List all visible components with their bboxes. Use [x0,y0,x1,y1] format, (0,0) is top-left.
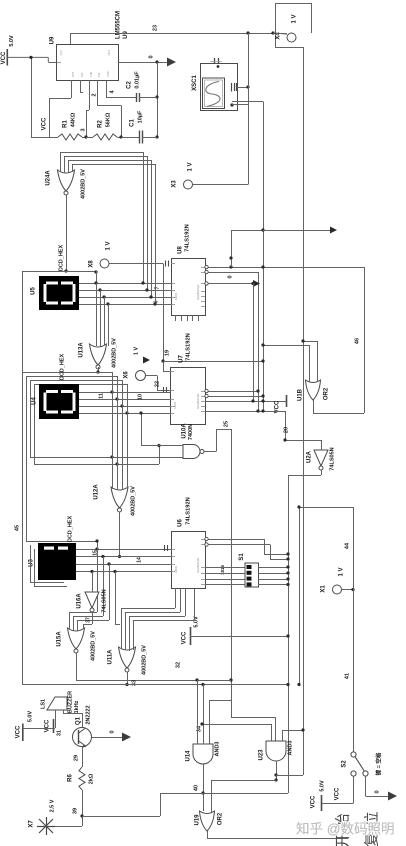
wire S2 right to ground [365,776,367,796]
svg-text:1kHz: 1kHz [74,700,80,713]
pin bubbles U8 carry/borrow [205,265,208,268]
svg-text:RST: RST [71,71,75,77]
svg-text:U24A: U24A [46,170,52,186]
svg-text:5.0V: 5.0V [9,35,15,47]
wire U13A output [98,367,100,372]
svg-text:U13A: U13A [79,342,85,358]
wire ones BCD row4 [76,571,171,573]
wire hundreds BCD row3 [79,297,171,299]
ground at Q1 [122,733,131,742]
svg-text:BUZZER: BUZZER [67,691,73,713]
wire U7 carry pins right [208,391,258,393]
wire VCC to R1 chain [31,57,33,137]
svg-text:1 V: 1 V [292,14,298,23]
wire S1 to preset trunk [258,567,288,569]
wire U15A output net 33 [76,653,78,680]
net arrow near X6 [143,357,150,364]
logic gate U15A 4002BD_5V NOR [68,628,85,649]
probe X1 [333,585,342,594]
svg-text:X8: X8 [89,260,95,268]
svg-text:U5: U5 [31,287,37,295]
svg-text:23: 23 [152,25,158,31]
wire Q1 emitter to ground [92,737,123,739]
svg-text:4002BD_5V: 4002BD_5V [80,169,86,199]
svg-text:3: 3 [80,128,86,131]
svg-text:2.5 V: 2.5 V [49,799,55,812]
svg-text:LM555CM: LM555CM [116,11,122,39]
svg-text:OUT: OUT [107,50,111,56]
wire U2A input [321,440,323,450]
capacitor C2 0.01uF [136,93,138,102]
svg-text:U4: U4 [32,397,38,405]
wire left trunk 45 [22,271,24,684]
svg-text:31: 31 [56,730,62,736]
wire net 44 [299,507,353,509]
capacitor C1 10uF [121,137,139,139]
logic gate U19 OR2 [200,811,215,831]
wire tens BCD row4 [79,413,170,415]
svg-text:1 V: 1 V [339,567,345,576]
svg-text:10µF: 10µF [137,110,143,123]
svg-text:AND3: AND3 [287,741,293,756]
wire U8 pin to trunk [208,272,258,274]
probe X4 frame [275,3,311,5]
wire U12A output down [119,512,121,557]
svg-text:U9: U9 [49,36,55,44]
svg-text:X6: X6 [124,371,130,379]
wire U19 output [207,831,209,838]
svg-text:44KΩ: 44KΩ [70,112,76,127]
svg-text:14: 14 [136,557,142,563]
svg-text:7400N: 7400N [188,424,194,440]
svg-text:DIS: DIS [80,72,84,77]
svg-text:74LS192N: 74LS192N [186,497,192,525]
wire U6 carry jogs [208,539,264,541]
wire buzzer to Q1 collector [63,710,65,713]
wire X3 to clock trunk [193,184,249,186]
svg-text:46: 46 [354,338,360,344]
wire trunk scope B down right side [263,102,265,412]
wire U1B inputs [309,345,311,382]
wire hundreds BCD row4 [79,304,171,306]
resistor R6 2kOhm [79,767,85,790]
svg-text:VCC: VCC [59,50,63,56]
wire loop bottoms / U10A feeds [30,457,183,459]
svg-text:29: 29 [73,755,79,761]
svg-text:VCC: VCC [335,787,341,800]
wire U24A inputs from U8 bus [60,152,62,172]
svg-text:OR2: OR2 [218,812,224,825]
svg-text:X7: X7 [29,820,35,828]
svg-text:ABCD: ABCD [173,402,177,409]
logic gate U13A 4002BD_5V NOR [90,344,107,365]
probe X3 [184,180,193,189]
svg-text:THR: THR [89,72,93,77]
svg-text:知乎 @数码照明: 知乎 @数码照明 [296,821,394,837]
wire loop verticals left of U4 [26,376,28,541]
wire U24A output down [66,195,68,271]
wire ones BCD row2 [76,556,171,558]
wire tens bus columns down to U12A [112,372,114,487]
svg-text:OR2: OR2 [324,387,330,400]
svg-text:74LS05N: 74LS05N [101,589,107,612]
svg-text:44: 44 [344,542,350,549]
svg-text:VCC: VCC [1,51,7,64]
node junction R1/R2 [84,135,87,138]
probe X6 [136,371,146,381]
svg-text:U16A: U16A [77,593,83,609]
svg-text:1 V: 1 V [133,347,139,356]
wire U16A input [92,572,94,593]
pin stub 555 CON [80,80,82,92]
wire U1B output net 46 [313,400,315,413]
svg-text:1 V: 1 V [188,162,194,171]
svg-text:ABCD: ABCD [174,566,178,573]
logic gate U24A 4002BD_5V NOR [58,170,75,191]
svg-text:74LS192N: 74LS192N [186,333,192,361]
svg-text:S2: S2 [342,760,348,768]
wire ones BCD row3 [76,564,171,566]
svg-text:U15A: U15A [57,631,63,647]
wire U10A inputs [141,413,143,446]
svg-text:22: 22 [154,381,160,387]
svg-text:VCC: VCC [311,795,317,808]
pin stub 555 TRI [97,80,99,106]
power VCC near U7 [286,395,288,407]
svg-text:5.0V: 5.0V [319,780,325,792]
wire hundreds BCD row2 [79,290,171,292]
wire U14 inputs [197,680,199,744]
svg-text:U2A: U2A [307,450,313,463]
wire S2 left to VCC [353,776,355,803]
wire scope drop from net 23 [248,33,250,185]
display U4 DCD_HEX [39,384,79,419]
svg-text:5.0V: 5.0V [27,711,33,723]
logic gate U2A 74LS05N [314,450,328,466]
wire loop around U3 lower-left [30,545,32,582]
svg-text:X3: X3 [172,180,178,188]
wire jogs to U15A inputs [69,612,97,614]
switch S1 DIP-4 [245,563,259,587]
logic gate U1B OR2 [306,380,321,400]
svg-text:ABCD: ABCD [174,293,178,300]
svg-text:QAQBQCQD: QAQBQCQD [196,558,200,573]
svg-text:U9: U9 [123,31,129,39]
svg-text:U3: U3 [29,559,35,567]
wire net U24A-out horizontal [22,271,96,273]
wire X6 to U7 pin 22 [146,375,158,377]
probe X8 [100,259,109,268]
IC U6 74LS192N [172,532,206,589]
svg-text:39: 39 [72,808,78,814]
IC U7 74LS192N [171,368,206,425]
svg-text:56KΩ: 56KΩ [105,112,111,127]
probe X7 2.5V lamp [39,819,53,833]
svg-text:41: 41 [344,673,350,679]
wire trunk U2A out down [288,475,290,793]
wire tens BCD row3 [79,406,170,408]
transistor Q1 2N2222 [73,728,92,747]
svg-text:U1B: U1B [298,388,304,401]
svg-text:10: 10 [137,394,143,400]
logic gate U23 AND3 [266,741,286,761]
svg-text:DCD_HEX: DCD_HEX [58,245,64,272]
wire ones BCD row1 [76,549,171,551]
svg-text:VCC: VCC [16,725,22,738]
svg-text:0: 0 [148,55,154,58]
svg-text:4002BD_5V: 4002BD_5V [130,486,136,516]
svg-text:QAQBQCQD: QAQBQCQD [196,394,200,409]
svg-text:25: 25 [223,421,229,427]
svg-text:TRI: TRI [97,73,101,77]
wire U11A inputs from U6 bottom [121,608,123,649]
wire hundreds BCD row1 [79,283,171,285]
wire U23 inputs [271,724,273,741]
switch S2 (space key) [351,752,356,757]
wire Q1 base to R6 [82,747,84,768]
svg-text:Q1: Q1 [76,716,82,725]
wire net 25 long drop [231,429,233,717]
buzzer LS1 1kHz [47,697,67,710]
display U3 DCD_HEX [38,543,76,580]
wire U16A output [92,612,94,624]
op-amp U9 LM555CM body [57,45,119,81]
svg-text:37: 37 [85,617,91,623]
wire tens BCD row1 [79,392,170,394]
svg-text:U11A: U11A [108,649,114,665]
svg-text:2N2222: 2N2222 [85,705,91,724]
svg-text:0: 0 [109,730,115,733]
wire ones bus columns [97,541,99,549]
wire U24A bus columns joining rows [143,152,145,283]
svg-text:0.01µF: 0.01µF [134,71,140,89]
svg-text:XSC1: XSC1 [192,75,198,91]
svg-text:LS1: LS1 [40,699,46,709]
svg-text:45: 45 [14,525,20,531]
wire U7 pin to VCC [205,401,286,403]
wire U11A output net 32 [127,672,129,685]
svg-text:1 V: 1 V [106,241,112,250]
svg-text:VCC: VCC [45,719,51,732]
wire U14 output to net 40 [203,764,205,811]
svg-text:DCD_HEX: DCD_HEX [59,354,65,381]
svg-text:74LS192N: 74LS192N [185,224,191,252]
svg-text:R1: R1 [63,120,69,128]
wire U12A inputs [112,487,114,489]
logic gate U10A 7400N NAND [183,445,200,459]
power VCC 5.0V (top-left) [6,49,8,66]
ground at 555 OUT [167,58,176,67]
pin stub 555 RST to VCC [71,80,73,98]
svg-text:U6: U6 [178,519,184,527]
svg-text:R6: R6 [68,774,74,782]
wire S1 to U6 preset pins [205,567,245,569]
wire X8 to net 19 riser [109,263,163,265]
svg-text:0: 0 [227,275,233,278]
svg-text:2kΩ: 2kΩ [88,773,94,784]
wire net 40 horizontal [160,793,288,795]
svg-text:C1: C1 [130,119,136,127]
wire node 39 to py793 riser [82,816,160,818]
svg-text:19: 19 [164,350,170,356]
oscilloscope XSC1 body [201,64,238,111]
svg-text:U7: U7 [179,355,185,363]
wire X1 to trunk 44 [342,589,354,591]
svg-text:4002BD_5V: 4002BD_5V [111,338,117,368]
svg-text:4002BD_5V: 4002BD_5V [90,631,96,661]
resistor R2 56KOhm [93,134,117,140]
power VCC 5.0V near U6 [190,627,192,645]
svg-text:4002BD_5V: 4002BD_5V [141,645,147,675]
svg-text:2: 2 [91,93,97,96]
pin bubbles U7 [205,389,208,392]
power VCC 5.0V at S2 [321,795,323,811]
logic gate U16A 74LS05N [85,592,99,608]
wire X7 to node 39 [55,826,82,828]
svg-text:X1: X1 [321,585,327,593]
wire bus columns to U13A [96,283,98,346]
wire OUT down to C1/R2 row [157,62,159,137]
wire tens BCD row2 [79,399,170,401]
wire R6 down to node 39 [82,790,84,826]
svg-text:U8: U8 [178,246,184,254]
svg-text:AND3: AND3 [214,742,220,757]
oscilloscope screen with sine trace [203,78,225,109]
pin stub 555 THR to C2 [106,80,108,97]
svg-text:0: 0 [374,790,380,793]
pin bubbles U6 [205,537,208,540]
logic gate U11A 4002BD_5V NOR [119,647,136,668]
wire X4 long trunk down right edge [303,47,305,775]
pin stub 555 DIS, pin 3 [89,80,91,110]
probe X4 [287,33,296,42]
svg-text:U19: U19 [195,814,201,826]
svg-text:40: 40 [193,785,199,791]
wire net 46 from U8 [208,267,364,269]
logic gate U12A 4002BD_5V NOR [111,487,128,508]
oscilloscope top terminals [214,58,216,64]
svg-text:R2: R2 [98,120,104,128]
wire U10A output net 25 [204,451,216,453]
svg-text:U14: U14 [186,750,192,762]
svg-text:32: 32 [175,662,181,668]
svg-text:DCD_HEX: DCD_HEX [67,516,73,543]
wire U23 output [276,761,278,780]
ground at S2 [388,792,397,801]
svg-text:U10A: U10A [182,423,188,439]
svg-text:33: 33 [131,680,137,686]
wire net 19 riser into U7 [163,264,165,372]
svg-text:键 = 空格: 键 = 空格 [374,752,382,776]
wire net 23 clock line [70,33,72,44]
logic gate U14 AND3 [193,744,213,764]
svg-text:CON: CON [106,71,110,77]
power VCC far bottom-left [22,724,24,742]
svg-text:QAQBQCQD: QAQBQCQD [196,285,200,300]
pin marks U8 left edge [165,261,167,267]
wire net46 branch with arrow [231,230,233,267]
pin marks U6 left edge [164,545,166,551]
svg-text:U23: U23 [259,749,265,761]
svg-text:C2: C2 [127,81,133,89]
pin stubs U8 bottom [175,315,177,321]
svg-text:S1: S1 [239,553,245,561]
svg-text:11: 11 [98,393,104,399]
svg-text:U12A: U12A [94,484,100,500]
wire long net from left trunk [22,684,288,686]
wire U8 load pin with arrow [208,283,253,285]
wire 555 OUT [118,62,167,64]
display U5 DCD_HEX [39,276,79,310]
oscilloscope bottom terminal B [230,103,233,106]
wire U7 pin down trunk [205,411,285,413]
svg-text:20: 20 [283,427,289,433]
wire loop top row (tens nets) [22,372,112,374]
node junction R2/C1 [119,135,122,138]
resistor R1 44KOhm [40,137,58,139]
wire U2A output [321,470,323,475]
oscilloscope right terminal A [231,83,233,92]
IC U8 74LS192N [172,259,206,316]
svg-text:74LS05N: 74LS05N [329,447,335,470]
power VCC under buzzer [55,710,57,728]
svg-text:VCC: VCC [42,117,48,130]
svg-text:VCC: VCC [182,631,188,644]
